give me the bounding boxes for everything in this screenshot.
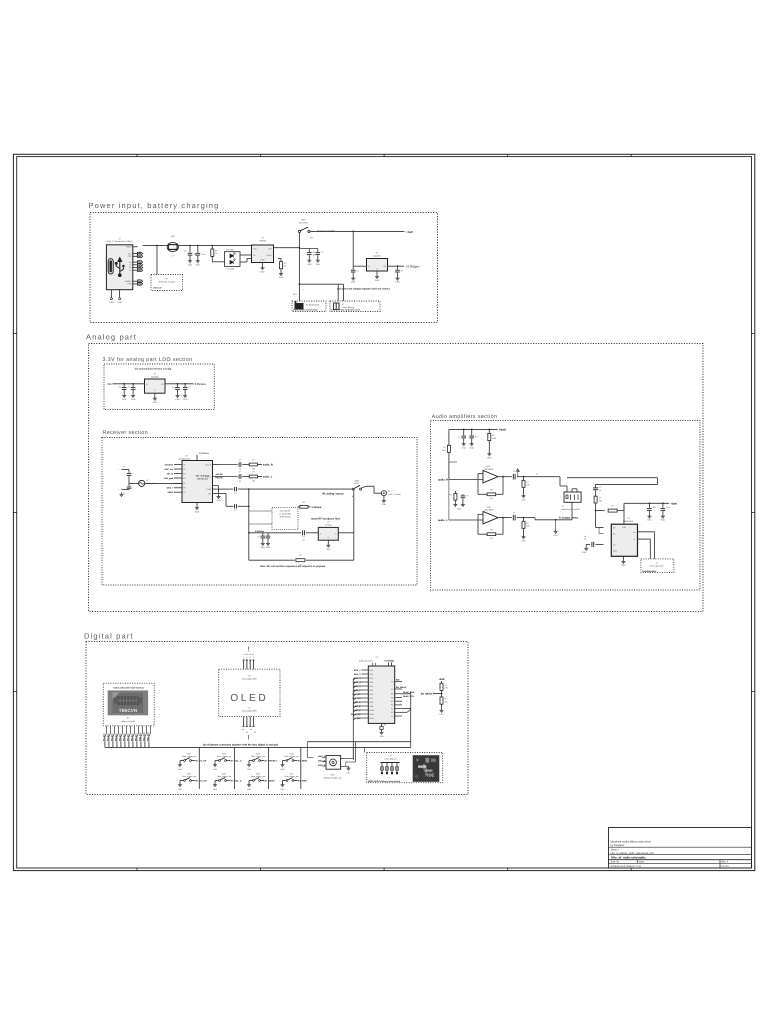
svg-text:B? BatteryCell: B? BatteryCell bbox=[306, 304, 319, 307]
svg-text:R?: R? bbox=[449, 494, 451, 497]
svg-text:1M/0.1uF: 1M/0.1uF bbox=[153, 286, 163, 289]
svg-text:IN+: IN+ bbox=[613, 527, 616, 530]
svg-text:radio_mod_pcb: radio_mod_pcb bbox=[121, 720, 136, 723]
svg-text:+batt: +batt bbox=[438, 678, 444, 681]
ground below divider bbox=[441, 709, 443, 711]
svg-text:Title: nf_radio schematic: Title: nf_radio schematic bbox=[611, 856, 647, 860]
svg-text:PB12: PB12 bbox=[370, 717, 374, 720]
svg-text:PB0: PB0 bbox=[370, 669, 373, 672]
svg-text:LC notch filter: LC notch filter bbox=[279, 513, 292, 516]
OLED display dotted box bbox=[219, 669, 280, 716]
ground below SW? bbox=[179, 783, 181, 785]
svg-text:ENC_S: ENC_S bbox=[318, 764, 326, 767]
ground below U1B load resistor bbox=[523, 535, 525, 537]
svg-text:loudspeaker: loudspeaker bbox=[643, 570, 657, 573]
U1A feedback loop bbox=[502, 477, 504, 495]
section box: power input dotted outline bbox=[90, 213, 438, 323]
svg-text:GND: GND bbox=[188, 263, 193, 266]
svg-text:Push_button_sm: Push_button_sm bbox=[217, 775, 232, 778]
ferrite rod antenna L2 bbox=[129, 482, 139, 484]
svg-text:KiCad E.D.A. kicad (7.0.1): KiCad E.D.A. kicad (7.0.1) bbox=[611, 865, 641, 868]
svg-text:C?: C? bbox=[584, 538, 586, 541]
svg-text:BT_BAND: BT_BAND bbox=[265, 780, 275, 783]
mcu right wires to vertical bbox=[402, 693, 411, 695]
svg-text:GND: GND bbox=[175, 398, 180, 401]
rotary encoder SW11 bbox=[306, 742, 308, 758]
antenna input capacitor Ca2 bbox=[122, 489, 130, 491]
wire jack out to right amp bbox=[567, 477, 658, 479]
svg-text:GND: GND bbox=[127, 283, 132, 286]
svg-text:OLED_RS: OLED_RS bbox=[351, 713, 361, 716]
svg-text:Conn_spk_2pin: Conn_spk_2pin bbox=[650, 565, 664, 568]
svg-text:GND: GND bbox=[521, 498, 526, 501]
svg-text:4: 4 bbox=[253, 656, 254, 659]
wire +batt down to LDO input bbox=[352, 231, 354, 266]
digital bus wire lower bbox=[105, 746, 411, 748]
svg-text:SW?: SW? bbox=[222, 752, 226, 755]
svg-text:VREF: VREF bbox=[167, 491, 173, 494]
svg-text:GND: GND bbox=[117, 301, 122, 304]
subsection box: audio amplifiers dotted outline bbox=[431, 421, 701, 591]
svg-text:GND: GND bbox=[307, 263, 312, 266]
svg-text:Size: A4: Size: A4 bbox=[611, 861, 620, 864]
svg-text:BTN_3: BTN_3 bbox=[354, 677, 361, 680]
svg-text:Rotary_encoder_sw: Rotary_encoder_sw bbox=[324, 777, 342, 780]
svg-text:P3: P3 bbox=[183, 472, 185, 475]
svg-text:D? GRN: D? GRN bbox=[227, 267, 235, 270]
capacitor C2 on VBUS bbox=[197, 246, 199, 253]
series output cap U1B bbox=[512, 515, 514, 521]
ground below SW? bbox=[248, 763, 250, 765]
svg-text:+batt: +batt bbox=[499, 428, 506, 432]
svg-text:GND: GND bbox=[347, 771, 352, 774]
mcu right pins bbox=[395, 681, 402, 683]
svg-text:TUNE: TUNE bbox=[206, 488, 212, 491]
wire switch to antenna jack bbox=[362, 486, 367, 487]
svg-text:below silkscreen side exterior: below silkscreen side exterior bbox=[113, 687, 144, 690]
svg-text:GND: GND bbox=[351, 281, 356, 284]
svg-text:R?: R? bbox=[492, 434, 494, 437]
ground below headphone detect bbox=[555, 530, 557, 532]
op-amp U1B output bbox=[498, 517, 512, 519]
svg-text:C?: C? bbox=[119, 386, 121, 389]
svg-text:b4: b4 bbox=[254, 731, 256, 734]
svg-text:GND: GND bbox=[470, 446, 475, 449]
svg-text:P2_bus: P2_bus bbox=[106, 733, 109, 741]
svg-text:C?: C? bbox=[513, 470, 515, 473]
svg-text:27k: 27k bbox=[444, 687, 447, 690]
svg-text:P_bus: P_bus bbox=[354, 717, 361, 720]
svg-text:varicap: varicap bbox=[325, 523, 332, 526]
svg-text:2k: 2k bbox=[284, 265, 286, 268]
bias resistor Rb top bbox=[488, 429, 490, 433]
svg-text:P10_bus: P10_bus bbox=[138, 732, 141, 741]
svg-text:GND: GND bbox=[582, 551, 587, 554]
rail cap Cp2 bbox=[471, 429, 473, 435]
svg-text:GND: GND bbox=[457, 508, 462, 511]
svg-text:Push_button_sm: Push_button_sm bbox=[251, 755, 266, 758]
svg-text:BTN_5: BTN_5 bbox=[354, 685, 361, 688]
svg-text:Shield_by_R_allow: Shield_by_R_allow bbox=[158, 281, 176, 284]
svg-text:BTN_2: BTN_2 bbox=[354, 673, 361, 676]
svg-text:GND: GND bbox=[216, 499, 221, 502]
svg-text:GND: GND bbox=[281, 788, 286, 791]
sheet inner border frame bbox=[17, 157, 752, 868]
3.3V/ana power flag above receiver IC bbox=[196, 455, 198, 461]
svg-text:Note: RF coil and film capaci: Note: RF coil and film capacitors are ad… bbox=[260, 565, 326, 568]
grounds below analog LDO output caps bbox=[177, 394, 179, 396]
svg-text:Audio amplifiers section: Audio amplifiers section bbox=[432, 414, 498, 420]
mcu top pins bbox=[388, 663, 390, 667]
svg-text:Id: 1/1: Id: 1/1 bbox=[722, 865, 730, 868]
wire switch to +batt label bbox=[310, 230, 404, 232]
U1B feedback loop bbox=[502, 518, 504, 535]
svg-text:Power input, battery charging: Power input, battery charging bbox=[89, 201, 220, 210]
battery holder dashed box 1 bbox=[292, 301, 326, 312]
svg-text:GND: GND bbox=[281, 768, 286, 771]
svg-text:GND: GND bbox=[183, 398, 188, 401]
svg-text:low quiescent voltage regulato: low quiescent voltage regulator (will us… bbox=[337, 287, 390, 290]
svg-text:PB11: PB11 bbox=[370, 713, 374, 716]
svg-text:USB_C_Receptacle_USB2.0: USB_C_Receptacle_USB2.0 bbox=[107, 240, 134, 243]
ground below bias resistor bbox=[488, 448, 490, 452]
antenna connector J2 bbox=[381, 491, 386, 496]
svg-text:regulator: regulator bbox=[151, 375, 159, 378]
ground left antenna bbox=[121, 493, 123, 495]
jack top pins bbox=[566, 486, 568, 492]
svg-text:1u: 1u bbox=[239, 468, 241, 471]
svg-text:Receiver section: Receiver section bbox=[103, 430, 149, 436]
svg-text:R?: R? bbox=[252, 459, 254, 462]
svg-text:U?B: U?B bbox=[487, 506, 492, 509]
svg-text:MCP6002: MCP6002 bbox=[485, 468, 495, 471]
shield connection dashed box bbox=[151, 275, 183, 291]
svg-text:R?: R? bbox=[599, 497, 601, 500]
stubs into filter box bbox=[249, 510, 272, 512]
ground below LDO output cap bbox=[397, 276, 399, 278]
ground below C2 bbox=[197, 259, 199, 261]
mcu bottom pins and ground bbox=[381, 723, 383, 726]
svg-text:P2: P2 bbox=[183, 468, 185, 471]
ground below SW? bbox=[179, 763, 181, 765]
svg-text:conn_dbg_prt: conn_dbg_prt bbox=[384, 758, 397, 761]
module pin rotated labels bbox=[102, 732, 149, 741]
svg-text:ENC_A: ENC_A bbox=[353, 701, 361, 704]
wire into amp IC input pins bbox=[595, 511, 597, 528]
module bottom pins bbox=[105, 726, 151, 742]
svg-text:x: x bbox=[389, 777, 390, 779]
svg-text:Power switch: Power switch bbox=[317, 229, 335, 233]
wire R1 to LED box bbox=[212, 261, 224, 263]
svg-text:P5: P5 bbox=[183, 482, 185, 485]
receiver IC left pins bbox=[174, 464, 182, 466]
svg-text:PB4: PB4 bbox=[370, 685, 373, 688]
grounds below feed caps bbox=[262, 542, 264, 544]
svg-text:GND: GND bbox=[109, 301, 114, 304]
wire from VBUS node down to shield net box bbox=[156, 246, 158, 275]
load resistor U1B bbox=[523, 517, 525, 519]
ground below receiver IC bbox=[196, 503, 198, 507]
wires LED box to charger IC bbox=[240, 254, 252, 256]
ground below rail cap Cp2 bbox=[471, 442, 473, 444]
svg-text:SWD UART debug conn pinout: SWD UART debug conn pinout bbox=[368, 780, 400, 783]
svg-text:PB6: PB6 bbox=[370, 693, 373, 696]
bus wire upper bbox=[307, 741, 410, 743]
svg-text:regulator: regulator bbox=[373, 255, 381, 258]
ground below charger U2 bbox=[262, 263, 264, 267]
audio_L output RC network bbox=[221, 476, 238, 478]
svg-text:GND: GND bbox=[247, 768, 252, 771]
svg-text:OSC_t: OSC_t bbox=[167, 487, 174, 490]
debug connector pins bbox=[381, 762, 400, 764]
svg-text:audio_L: audio_L bbox=[438, 519, 448, 522]
mcu left bus vertical bbox=[352, 678, 354, 760]
receiver IC right pins bbox=[213, 464, 221, 466]
svg-text:C?: C? bbox=[257, 535, 259, 538]
svg-text:b1: b1 bbox=[242, 728, 244, 731]
svg-text:ENC_B: ENC_B bbox=[353, 705, 361, 708]
mcu right vertical wire bbox=[410, 692, 412, 748]
svg-text:+batt: +batt bbox=[406, 230, 413, 234]
svg-text:by Designer: by Designer bbox=[611, 844, 625, 847]
amp rail cap 2 bbox=[662, 503, 664, 508]
svg-text:bolt on cheap 2p battery conn: bolt on cheap 2p battery conn bbox=[331, 308, 361, 311]
virtual ground divider resistor left bbox=[448, 429, 450, 445]
ground below Rprog bbox=[280, 272, 282, 274]
svg-text:x1 x2 x3 x4: x1 x2 x3 x4 bbox=[243, 653, 254, 656]
coupling cap into amp bbox=[595, 486, 597, 488]
svg-text:Rf_tuning_source: Rf_tuning_source bbox=[323, 493, 345, 496]
svg-text:b2: b2 bbox=[246, 731, 248, 734]
subsection box: analog LDO dotted outline bbox=[104, 364, 214, 410]
svg-text:low dropout/quiet 3V3 (not use: low dropout/quiet 3V3 (not use dig) bbox=[135, 368, 172, 371]
svg-text:(DNP parts): (DNP parts) bbox=[280, 516, 291, 519]
svg-text:0.1u: 0.1u bbox=[666, 506, 670, 509]
svg-text:U?A: U?A bbox=[487, 465, 492, 468]
USB trident symbol bbox=[115, 258, 124, 277]
svg-text:P12_bus: P12_bus bbox=[146, 732, 149, 741]
svg-text:P9_bus: P9_bus bbox=[134, 733, 137, 741]
svg-text:BT_PWR: BT_PWR bbox=[298, 780, 307, 783]
battery connector dashed box 2 bbox=[330, 301, 380, 312]
ground below SW? bbox=[248, 783, 250, 785]
svg-text:10k: 10k bbox=[252, 468, 255, 471]
amp outputs to speaker bbox=[638, 531, 655, 533]
svg-text:BT_PRESET: BT_PRESET bbox=[265, 760, 278, 763]
divider resistor R top bbox=[440, 683, 443, 690]
svg-text:Date:: Date: bbox=[639, 861, 645, 864]
filter loop left vertical wire bbox=[248, 489, 250, 560]
svg-text:GND: GND bbox=[521, 539, 526, 542]
ground below SW? bbox=[214, 763, 216, 765]
svg-text:PROG: PROG bbox=[267, 254, 273, 257]
analog LDO input caps bbox=[123, 384, 125, 387]
svg-text:BT_TU_UP: BT_TU_UP bbox=[196, 760, 207, 763]
wire audio_R to op-amp bbox=[449, 479, 483, 481]
svg-text:18650 holder (connector): 18650 holder (connector) bbox=[293, 308, 318, 311]
svg-text:SHIELD: SHIELD bbox=[125, 280, 132, 283]
title block row lines bbox=[609, 846, 752, 848]
svg-text:P3_bus: P3_bus bbox=[110, 733, 113, 741]
ground below load resistor bbox=[523, 494, 525, 496]
svg-text:BTN_4: BTN_4 bbox=[354, 681, 361, 684]
svg-text:GND: GND bbox=[266, 546, 271, 549]
svg-text:GND: GND bbox=[462, 446, 467, 449]
svg-text:P8_bus: P8_bus bbox=[130, 733, 133, 741]
charge indicator LEDs D1 D2 bbox=[225, 252, 241, 267]
svg-text:GND: GND bbox=[316, 263, 321, 266]
svg-text:PB8: PB8 bbox=[370, 701, 373, 704]
svg-text:GND: GND bbox=[613, 550, 618, 553]
resistor R1 LED series bbox=[211, 246, 213, 249]
svg-text:GND: GND bbox=[122, 398, 127, 401]
svg-text:ardu_pro_mcu: ardu_pro_mcu bbox=[359, 660, 373, 663]
svg-text:1u: 1u bbox=[172, 386, 174, 389]
svg-text:R?: R? bbox=[490, 528, 492, 531]
varicap input cap bbox=[249, 532, 301, 534]
BA_MEAS net label bbox=[433, 693, 442, 695]
svg-text:tuned RF bandpass filter: tuned RF bandpass filter bbox=[311, 517, 340, 520]
svg-text:R?: R? bbox=[490, 488, 492, 491]
svg-text:1u: 1u bbox=[584, 535, 586, 538]
svg-text:C?: C? bbox=[188, 386, 190, 389]
svg-text:BT_VOL_D: BT_VOL_D bbox=[231, 780, 242, 783]
svg-text:R?: R? bbox=[611, 505, 613, 508]
svg-text:SW?: SW? bbox=[289, 752, 293, 755]
divider resistor R bottom bbox=[440, 697, 443, 704]
ground below amp rail cap 2 bbox=[662, 514, 664, 516]
svg-text:BT_TU_DN: BT_TU_DN bbox=[196, 780, 207, 783]
ground below C1 bbox=[189, 259, 191, 261]
svg-text:SW_SPST: SW_SPST bbox=[299, 221, 309, 224]
svg-text:+batt: +batt bbox=[671, 503, 677, 506]
svg-text:47k: 47k bbox=[490, 497, 493, 500]
wire audio_L to op-amp U1B bbox=[448, 480, 450, 521]
gain resistor horizontal bbox=[596, 510, 605, 512]
wire U1B to jack and detect bbox=[524, 517, 536, 519]
svg-text:1: 1 bbox=[243, 656, 244, 659]
svg-text:GND: GND bbox=[395, 281, 400, 284]
svg-text:R?: R? bbox=[215, 250, 217, 253]
svg-text:3.3V/ana: 3.3V/ana bbox=[312, 506, 322, 509]
amp power rail bbox=[623, 503, 625, 524]
svg-text:P6_bus: P6_bus bbox=[122, 733, 125, 741]
svg-text:Push_button_sm: Push_button_sm bbox=[284, 755, 299, 758]
tuning wire from receiver IC bbox=[221, 488, 234, 490]
svg-text:47k: 47k bbox=[490, 537, 493, 540]
svg-text:PB1: PB1 bbox=[370, 673, 373, 676]
svg-text:BTN_6: BTN_6 bbox=[354, 689, 361, 692]
svg-text:C?: C? bbox=[513, 511, 515, 514]
svg-text:Push_button_sm: Push_button_sm bbox=[182, 755, 197, 758]
svg-text:File: nf_effects_radio_main.ki: File: nf_effects_radio_main.kicad_sch bbox=[611, 852, 655, 855]
debug module photo block bbox=[413, 755, 440, 782]
svg-text:R?: R? bbox=[444, 684, 446, 687]
svg-text:1n: 1n bbox=[302, 538, 304, 541]
svg-text:O+: O+ bbox=[633, 531, 635, 534]
svg-text:audio_R: audio_R bbox=[263, 464, 273, 467]
svg-text:3.3V/ana: 3.3V/ana bbox=[195, 382, 207, 386]
ground below amp rail cap 1 bbox=[648, 514, 650, 516]
subsection box: receiver dotted outline bbox=[102, 438, 417, 586]
svg-text:TB6CVN: TB6CVN bbox=[119, 708, 138, 713]
load resistor R after cap bbox=[523, 476, 525, 478]
svg-text:TP4056: TP4056 bbox=[259, 240, 267, 243]
OLED top pins bbox=[243, 660, 245, 669]
svg-text:100k: 100k bbox=[442, 449, 446, 452]
filter loop right vertical wire bbox=[353, 489, 355, 560]
svg-text:SW?: SW? bbox=[256, 752, 260, 755]
svg-text:audio_R: audio_R bbox=[438, 479, 448, 482]
svg-text:Push_button_sm: Push_button_sm bbox=[182, 775, 197, 778]
svg-text:3.3V for analog part LDO secti: 3.3V for analog part LDO section bbox=[103, 357, 193, 363]
svg-text:ENC_S: ENC_S bbox=[354, 709, 362, 712]
headphone-filter dashed box bbox=[272, 508, 298, 530]
svg-text:SW?: SW? bbox=[187, 772, 191, 775]
svg-text:P4_bus: P4_bus bbox=[114, 733, 117, 741]
svg-text:GND: GND bbox=[196, 263, 201, 266]
frame zone tick marks bbox=[13, 154, 754, 870]
svg-text:Rev: A: Rev: A bbox=[722, 861, 729, 864]
svg-text:C?: C? bbox=[127, 386, 129, 389]
svg-text:C?: C? bbox=[239, 471, 241, 474]
svg-text:C?: C? bbox=[475, 435, 477, 438]
svg-text:Push_button_sm: Push_button_sm bbox=[251, 775, 266, 778]
svg-text:R_headph_detect: R_headph_detect bbox=[559, 516, 578, 519]
audio_R output RC network bbox=[221, 464, 238, 466]
grounds below analog LDO input caps bbox=[123, 394, 125, 396]
svg-text:MCP6002: MCP6002 bbox=[485, 509, 495, 512]
net flag above cap bbox=[517, 471, 519, 477]
svg-text:BA_MEAS: BA_MEAS bbox=[396, 686, 407, 689]
svg-text:GND: GND bbox=[261, 546, 266, 549]
svg-text:10k: 10k bbox=[444, 700, 447, 703]
svg-text:C?: C? bbox=[401, 270, 403, 273]
svg-text:3.3V/ana: 3.3V/ana bbox=[199, 452, 209, 455]
svg-text:PB7: PB7 bbox=[370, 697, 373, 700]
svg-text:BA_MEAS: BA_MEAS bbox=[421, 693, 433, 696]
decoupling caps on battery rail bbox=[299, 248, 317, 250]
svg-text:P1: P1 bbox=[183, 463, 185, 466]
series output cap U1A bbox=[512, 474, 514, 480]
svg-text:GND: GND bbox=[178, 768, 183, 771]
svg-text:use with RF: use with RF bbox=[280, 510, 291, 513]
svg-text:PAM8302A: PAM8302A bbox=[623, 520, 634, 523]
svg-text:2: 2 bbox=[246, 656, 247, 659]
svg-text:C?: C? bbox=[357, 270, 359, 273]
svg-text:PB3: PB3 bbox=[370, 681, 373, 684]
ground below amp IC bbox=[622, 556, 624, 559]
svg-text:R?: R? bbox=[444, 698, 446, 701]
svg-text:GND: GND bbox=[553, 534, 558, 537]
debug connector dotted box bbox=[367, 753, 443, 783]
ground below SW? bbox=[282, 763, 284, 765]
wire IC to lowpass cap bbox=[221, 493, 227, 495]
svg-text:C?: C? bbox=[302, 536, 304, 539]
sheet outer border frame bbox=[13, 154, 754, 870]
svg-text:C?: C? bbox=[313, 251, 315, 254]
svg-text:R?: R? bbox=[443, 446, 445, 449]
title block outline bbox=[609, 828, 752, 869]
headphone jack J3 bbox=[564, 492, 581, 502]
svg-text:R?: R? bbox=[284, 262, 286, 265]
svg-text:OLED_SCL: OLED_SCL bbox=[403, 695, 415, 698]
svg-text:GND: GND bbox=[261, 259, 266, 262]
svg-text:R?: R? bbox=[526, 481, 528, 484]
svg-text:RF_in: RF_in bbox=[167, 472, 174, 475]
radio module dashed box bbox=[103, 683, 154, 726]
svg-text:audio_L: audio_L bbox=[263, 476, 273, 479]
